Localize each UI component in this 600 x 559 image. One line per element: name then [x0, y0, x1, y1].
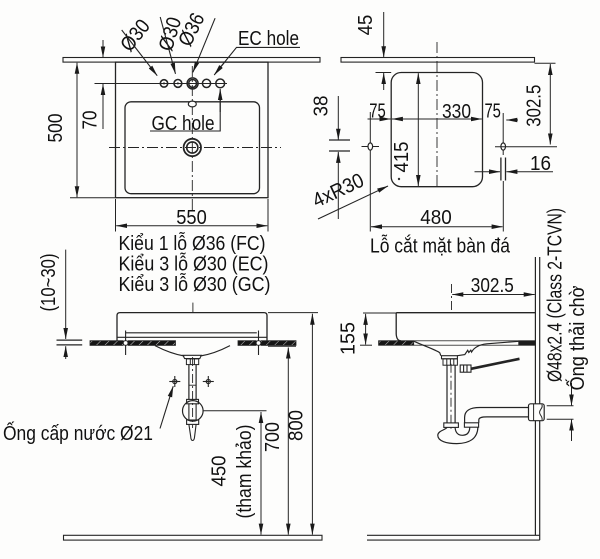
dim 16 right arrow	[506, 171, 553, 173]
cutout rounded rectangle	[391, 73, 482, 187]
dim 500 line	[76, 63, 78, 197]
supply cross marker left	[169, 376, 180, 387]
bolt left	[123, 331, 128, 356]
caption line 3	[119, 273, 271, 296]
tailpipe front	[189, 365, 196, 400]
svg-text:155: 155	[337, 322, 360, 355]
sink top surface (side)	[396, 312, 535, 314]
pipe label Ong thai cho	[565, 286, 589, 391]
dim 70 upper arrow	[102, 40, 104, 57]
dim (10~30) text	[37, 254, 60, 312]
bowl underside left	[155, 346, 184, 356]
dim 38 parallel line upper	[329, 139, 350, 141]
dim 155 ticks	[360, 344, 372, 346]
drain flange front	[183, 355, 201, 358]
drain flange (side)	[442, 356, 458, 359]
dim 480 ext line right	[502, 181, 504, 232]
svg-text:450: 450	[208, 456, 231, 487]
ext line right of counter bar	[535, 62, 556, 64]
p-trap nut	[464, 423, 478, 427]
sink front outline	[117, 313, 267, 341]
counter bar left (front)	[90, 341, 176, 346]
tailpipe centerline	[450, 364, 452, 430]
dim 302.5 line (side)	[452, 294, 534, 296]
counter bar black right segment	[519, 341, 536, 345]
dim 45 text	[354, 15, 377, 36]
counter bar right (front)	[238, 341, 296, 346]
floor bar left	[64, 535, 323, 540]
bottle trap circle	[183, 401, 204, 422]
caption line 1	[119, 232, 266, 255]
svg-text:16: 16	[530, 152, 551, 175]
drain nut (side)	[443, 359, 457, 365]
svg-text:415: 415	[390, 142, 413, 173]
centerline above sink (front)	[192, 303, 194, 313]
dim 302.5 text (side)	[471, 274, 514, 297]
dim 75 right arrow	[506, 119, 518, 121]
svg-text:Ø30: Ø30	[116, 15, 155, 56]
svg-text:500: 500	[44, 114, 67, 143]
dim 16 text	[530, 152, 551, 175]
centerline through trap (front)	[192, 357, 194, 428]
drain tail	[189, 424, 196, 440]
EC hole leader	[216, 47, 301, 73]
floor bar right	[367, 535, 540, 540]
hole centerline (horizontal through faucet holes)	[95, 83, 228, 85]
dim 38 text	[310, 96, 333, 117]
dim 38 upper arrow	[337, 96, 339, 140]
svg-text:480: 480	[420, 206, 452, 229]
dim 450 text	[208, 456, 231, 487]
dim 302.5 text	[523, 85, 546, 127]
waste pipe hole lines (16)	[500, 158, 502, 181]
svg-text:302.5: 302.5	[471, 274, 514, 297]
svg-text:(tham khảo): (tham khảo)	[233, 425, 256, 519]
p-trap elbow to horizontal pipe	[465, 408, 529, 423]
dim 38 lower arrow	[337, 152, 339, 219]
dim 480 text	[420, 206, 452, 229]
dim 155 text	[337, 322, 360, 355]
bolt right	[256, 331, 261, 356]
left hole marker ellipse	[368, 143, 373, 150]
svg-text:550: 550	[176, 206, 207, 229]
ext line from right marker	[495, 146, 557, 148]
svg-text:70: 70	[79, 111, 102, 130]
dim 550 line	[116, 225, 267, 227]
label O30 middle	[154, 14, 186, 53]
overflow slot ellipse	[188, 101, 196, 107]
4xR30 label	[309, 169, 368, 213]
svg-text:45: 45	[354, 15, 377, 36]
bowl section right (side)	[457, 341, 518, 355]
svg-text:38: 38	[310, 96, 333, 117]
ext line 700	[268, 345, 296, 347]
dim 45 lower arrow	[383, 73, 385, 90]
counter edge bar (cutout view)	[341, 58, 535, 63]
svg-text:Ống thải chờ: Ống thải chờ	[565, 286, 589, 391]
pipe dia upper arrow	[571, 383, 573, 405]
gap parallel lines	[57, 339, 83, 341]
sink front edge (side)	[396, 313, 401, 341]
ext line cutout top	[376, 72, 392, 74]
pop-up rod box	[460, 365, 471, 372]
dim 70 text	[79, 111, 102, 130]
dim 550 text	[176, 206, 207, 229]
svg-text:302.5: 302.5	[523, 85, 546, 127]
horizontal centerline of basin	[109, 147, 281, 149]
left hole marker cross tick	[362, 146, 380, 148]
drain nut 2	[187, 399, 199, 403]
svg-text:Ø48x2.4 (Class 2-TCVN): Ø48x2.4 (Class 2-TCVN)	[544, 208, 567, 382]
right hole marker vertical line	[502, 113, 504, 155]
bowl underside right	[200, 346, 230, 356]
p-trap U bend	[438, 423, 478, 443]
wall socket	[529, 404, 545, 421]
faucet hole circles	[160, 78, 224, 89]
caption line 2	[119, 253, 269, 276]
dim 75 left arrow	[368, 118, 391, 120]
label O30 left	[116, 15, 155, 56]
dim 16 left arrow	[475, 171, 501, 173]
drain outer circle	[184, 139, 201, 156]
caption cutout	[370, 235, 510, 258]
dim 155 line	[365, 314, 367, 345]
dim 700 line	[287, 348, 289, 535]
tailpipe nut (side)	[444, 423, 459, 428]
drain nut 1	[186, 359, 198, 365]
label O36	[174, 9, 210, 50]
counter bar black left segment	[379, 341, 414, 345]
leader to hole 1	[122, 30, 158, 76]
leader to hole 3	[193, 18, 215, 72]
svg-text:800: 800	[285, 410, 308, 441]
dim (10~30) upper arrow	[65, 250, 67, 339]
ext line 450	[204, 410, 267, 412]
centerline above sink (side)	[451, 284, 453, 311]
EC hole label	[238, 27, 299, 50]
dim 45 upper arrow	[383, 12, 385, 57]
GC hole label	[152, 112, 215, 135]
wall/counter edge bar (plan)	[63, 58, 320, 63]
rim bottom line	[117, 336, 267, 338]
rim inner line	[125, 332, 256, 334]
pipe dia lower arrow	[571, 420, 573, 441]
dim 75 left text	[369, 100, 386, 123]
GC hole leader underline and arrow	[150, 92, 220, 131]
4xR30 leader	[318, 186, 388, 219]
basin outer rectangle	[116, 62, 269, 198]
dim 500 text	[44, 114, 67, 143]
dim (10~30) lower arrow	[65, 346, 67, 359]
counter bar outline (side)	[379, 341, 536, 345]
dim 415 text	[390, 142, 413, 173]
svg-text:700: 700	[261, 422, 284, 452]
dim tham khao text	[233, 425, 256, 519]
wall lines	[534, 257, 536, 535]
dim 700 text	[261, 422, 284, 452]
dim 75 right text	[484, 100, 501, 123]
right hole marker ellipse	[501, 143, 506, 150]
hole center dots	[163, 82, 179, 84]
dim 330 text	[442, 100, 471, 123]
stray center dot	[398, 178, 400, 180]
ext line 155 top	[363, 312, 396, 314]
svg-text:Ống cấp nước Ø21: Ống cấp nước Ø21	[3, 421, 153, 445]
ext line 800	[268, 312, 318, 314]
leader to hole 2	[160, 17, 175, 74]
svg-text:Lỗ cắt mặt bàn đá: Lỗ cắt mặt bàn đá	[370, 235, 510, 258]
vertical centerline of basin	[191, 66, 193, 213]
basin inner rounded rectangle	[125, 102, 260, 194]
dim 330 line	[392, 118, 482, 120]
svg-text:(10~30): (10~30)	[37, 254, 60, 312]
svg-text:EC hole: EC hole	[238, 27, 299, 50]
dim 450 line	[260, 412, 262, 535]
cutout centerline vertical	[436, 42, 438, 189]
dim 800 text	[285, 410, 308, 441]
dim 550 ext lines	[115, 199, 117, 232]
dim 38 parallel line lower	[329, 150, 350, 152]
svg-text:Kiểu 3 lỗ Ø30 (GC): Kiểu 3 lỗ Ø30 (GC)	[119, 273, 271, 296]
dim 415 line	[417, 73, 419, 186]
ext lines for pipe dia	[547, 405, 574, 407]
left hole marker vertical line	[369, 112, 371, 232]
dim 70 lower arrow	[102, 84, 104, 129]
tailpipe (side)	[447, 365, 455, 423]
svg-text:75: 75	[484, 100, 501, 123]
supply label	[3, 421, 153, 445]
dim 302.5 line	[549, 64, 551, 145]
drain inner circle	[187, 142, 198, 153]
dim 480 line	[371, 226, 503, 228]
supply label leader	[160, 386, 173, 428]
pop-up rod	[471, 359, 520, 369]
bowl section left (side)	[414, 341, 441, 356]
pipe label O48	[544, 208, 567, 382]
svg-text:330: 330	[442, 100, 471, 123]
pipe through trap	[189, 404, 196, 420]
supply cross marker right	[203, 376, 214, 387]
dim 800 line	[311, 314, 313, 535]
ext line at basin bottom left	[70, 197, 116, 199]
drain nut 3	[187, 420, 199, 424]
